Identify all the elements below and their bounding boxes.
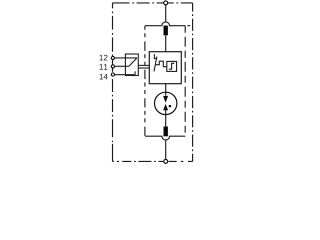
terminal node bottom: [164, 159, 168, 163]
electrode arrow up: [163, 104, 168, 110]
wire terminal 14 to contact: [115, 74, 136, 76]
terminal node top: [164, 1, 168, 5]
label 14: [100, 74, 108, 80]
disconnect switch blade: [154, 57, 157, 72]
outer enclosure dash-dot border bottom edge: [113, 160, 193, 162]
terminal node 11: [111, 65, 114, 68]
wire fuse to monitoring box: [165, 35, 167, 51]
thermal disconnector F1 (top fuse block): [164, 26, 168, 36]
changeover blade: [129, 58, 137, 66]
wire terminal 12 to contact: [115, 57, 138, 59]
wire monitoring box to gas discharge tube: [165, 84, 167, 96]
label 11: [100, 64, 108, 70]
outer enclosure dash-dot border top edge: [113, 2, 193, 4]
step symbol in indicator: [169, 63, 175, 69]
disconnect switch stub: [154, 54, 156, 59]
terminal node 12: [111, 56, 114, 59]
thermal disconnector F2 (bottom fuse block): [164, 127, 168, 137]
gas-filled dot: [169, 105, 172, 108]
mechanical linkage lower line: [138, 67, 149, 69]
outer enclosure dash-dot border right edge: [192, 3, 194, 162]
terminal node 14: [111, 73, 114, 76]
outer enclosure dash-dot border left edge: [112, 3, 114, 162]
mechanical linkage upper line: [138, 64, 149, 66]
indicator square: [167, 61, 177, 71]
inner dashed box right edge: [184, 26, 186, 137]
top edge stray dash: [187, 25, 190, 27]
wire terminal 11 to pivot: [115, 65, 129, 67]
label 12: [100, 55, 108, 61]
wire gas discharge tube to bottom fuse: [165, 110, 167, 127]
wire lower bridge to bottom terminal: [165, 140, 167, 160]
inner dashed box left edge: [144, 26, 146, 137]
electrode arrow down: [163, 96, 168, 103]
wire top terminal to upper bridge: [165, 5, 167, 22]
inner dashed box top edge with crossover hump: [145, 22, 185, 26]
remote contact box S1: [125, 54, 138, 76]
inner dashed box bottom edge with downward crossover hump: [145, 136, 185, 140]
pulse waveform: [156, 61, 167, 66]
monitoring box U1: [149, 52, 181, 84]
gas discharge tube G1 envelope: [155, 92, 177, 114]
contact 14 tick: [134, 71, 136, 74]
